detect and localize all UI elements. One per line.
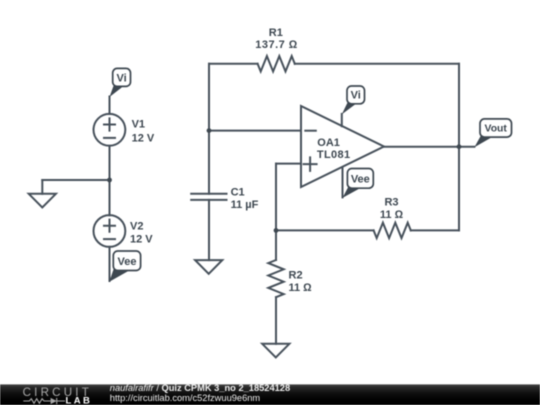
- svg-text:11 µF: 11 µF: [231, 199, 259, 211]
- ground (left, V1/V2 midpoint): [29, 194, 56, 208]
- capacitor C1: [191, 194, 226, 200]
- net flag Vee at op-amp V-: [343, 169, 374, 198]
- wire right vertical (Vout column): [458, 64, 460, 231]
- wire top-left corner down to C1: [208, 64, 210, 194]
- svg-text:Vee: Vee: [351, 173, 370, 185]
- voltage source V1: [94, 114, 126, 146]
- wire node to op-amp inverting input: [209, 130, 301, 132]
- resistor R3: [276, 223, 459, 238]
- wire ground stub: [41, 180, 43, 194]
- svg-text:LAB: LAB: [66, 396, 93, 405]
- svg-text:Vout: Vout: [485, 124, 508, 135]
- wire junction to ground branch: [42, 179, 109, 181]
- svg-text:12 V: 12 V: [130, 233, 153, 245]
- wire op-amp non-inverting input: [276, 163, 301, 165]
- wire C1 bottom to ground: [208, 200, 210, 260]
- wire V1 bottom to junction: [109, 146, 111, 180]
- svg-text:11 Ω: 11 Ω: [289, 282, 313, 294]
- svg-text:Vi: Vi: [116, 73, 126, 85]
- junction node V1/V2/ground: [107, 178, 112, 183]
- CircuitLab logo: [23, 386, 93, 405]
- op-amp V+ supply pin: [341, 114, 343, 126]
- wire non-inverting input down to R2/R3 node: [275, 164, 277, 231]
- svg-text:R2: R2: [289, 270, 303, 282]
- svg-text:Vi: Vi: [351, 90, 361, 102]
- svg-text:TL081: TL081: [317, 149, 351, 161]
- ground (below C1): [195, 260, 222, 274]
- svg-text:naufalrafifr / Quiz CPMK 3_no: naufalrafifr / Quiz CPMK 3_no 2_18524128: [110, 383, 290, 393]
- resistor R1: [209, 56, 459, 71]
- junction node R1/C1/inverting input: [207, 128, 212, 133]
- junction node output: [457, 144, 462, 149]
- wire V2 bottom to Vee flag: [109, 247, 111, 281]
- svg-text:R3: R3: [384, 197, 398, 209]
- svg-text:OA1: OA1: [317, 137, 340, 149]
- voltage source V2: [94, 215, 126, 247]
- wire op-amp output to Vout flag: [384, 146, 474, 148]
- svg-text:http://circuitlab.com/c52fzwuu: http://circuitlab.com/c52fzwuu9e6nm: [110, 393, 261, 403]
- svg-text:Vee: Vee: [118, 256, 137, 268]
- net flag Vee at V2: [109, 251, 140, 282]
- net flag Vi at op-amp V+: [342, 86, 365, 114]
- op-amp V- supply pin: [342, 167, 344, 197]
- op-amp OA1 body: [301, 106, 384, 187]
- ground (below R2): [262, 344, 289, 358]
- footer bar: [0, 384, 540, 405]
- svg-text:12 V: 12 V: [132, 133, 155, 145]
- wire junction to V2 top: [109, 180, 111, 215]
- svg-text:11 Ω: 11 Ω: [380, 209, 404, 221]
- net flag Vout: [474, 119, 511, 147]
- svg-text:R1: R1: [269, 27, 283, 39]
- svg-text:C1: C1: [231, 186, 245, 198]
- resistor R2: [268, 230, 283, 343]
- net flag Vi at V1: [110, 68, 131, 97]
- wire Vi flag stub to V1 top: [109, 97, 111, 115]
- junction node R2/R3/non-inverting input: [274, 228, 279, 233]
- svg-text:V1: V1: [132, 119, 145, 131]
- svg-text:V2: V2: [130, 220, 143, 232]
- svg-text:137.7 Ω: 137.7 Ω: [255, 39, 298, 51]
